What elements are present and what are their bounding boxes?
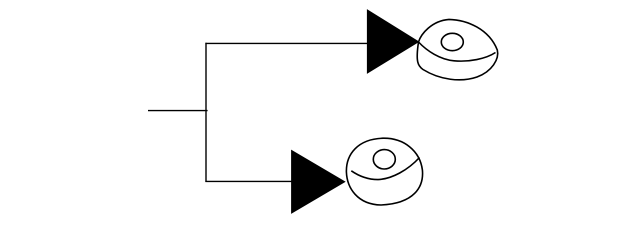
- amplifier A2 (bottom triangle): [292, 151, 345, 214]
- toroid core T2 (bottom): [346, 138, 422, 205]
- amplifier A1 (top triangle): [367, 10, 418, 73]
- wire vertical bus: [205, 43, 207, 182]
- toroid core T1 (top): [417, 19, 497, 79]
- wire bottom branch: [205, 180, 292, 182]
- wire input stub: [148, 110, 208, 112]
- wire top branch: [205, 42, 368, 44]
